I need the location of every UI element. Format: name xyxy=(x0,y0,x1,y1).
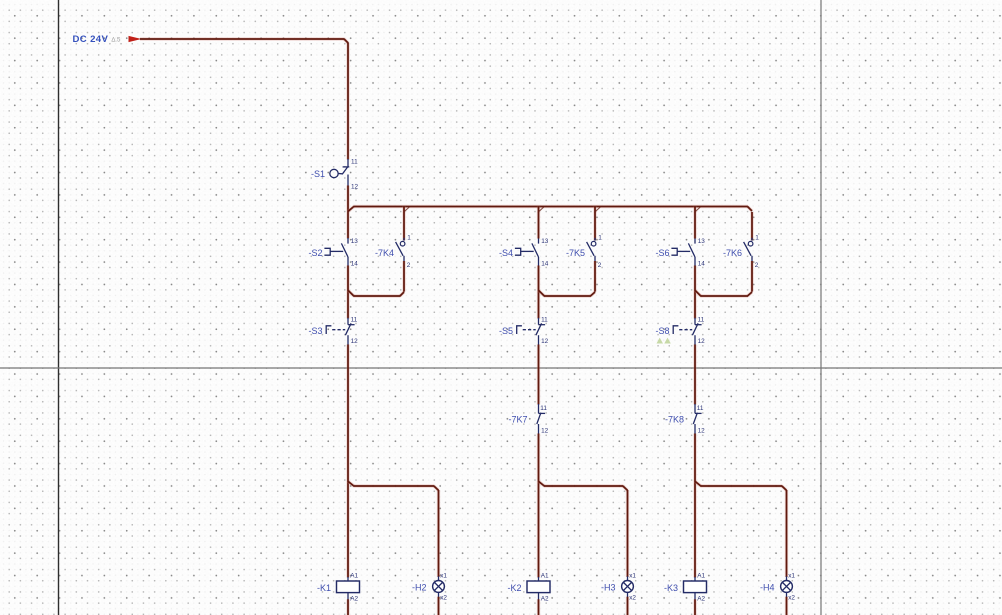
svg-text:12: 12 xyxy=(351,338,359,345)
svg-text:∆.5: ∆.5 xyxy=(112,36,122,43)
switch S3 (-S3, NC contact, pins 11/12) xyxy=(308,316,358,345)
svg-text:2: 2 xyxy=(407,262,411,269)
svg-text:-S4: -S4 xyxy=(499,248,513,258)
wire: rail to S6 vertical xyxy=(693,212,696,239)
indicator lamp H4 (-H4, pins x1/x2) xyxy=(760,572,795,601)
svg-text:11: 11 xyxy=(351,316,358,323)
wire: rejoin tap on rung 2 xyxy=(539,290,545,296)
svg-text:11: 11 xyxy=(351,159,358,166)
svg-text:11: 11 xyxy=(697,405,704,412)
switch S5 (-S5, NC contact, pins 11/12) xyxy=(499,316,549,345)
svg-text:x1: x1 xyxy=(629,572,636,579)
wire: tap from vertical at S1 rung xyxy=(348,207,354,212)
wire: rejoin tap on rung 3 xyxy=(695,290,701,296)
svg-text:-K1: -K1 xyxy=(317,583,331,593)
wire: rejoin horizontal 7K5 to rung 2 xyxy=(544,294,591,297)
svg-text:x1: x1 xyxy=(440,572,447,579)
pushbutton S1 (-S1, NC contact, pins 11/12) xyxy=(311,159,359,191)
wire: junction stub at x=404 xyxy=(402,206,405,212)
wire: lamp branch corner down xyxy=(434,486,439,490)
svg-text:A1: A1 xyxy=(541,572,549,579)
svg-text:13: 13 xyxy=(351,238,359,245)
wire: lamp branch corner down xyxy=(623,486,628,490)
annotation: green check marks near S8 xyxy=(657,338,664,344)
svg-text:14: 14 xyxy=(541,260,549,267)
wire: below coil -K3 to sheet edge xyxy=(693,599,696,615)
svg-text:-7K5: -7K5 xyxy=(566,248,585,258)
svg-text:x2: x2 xyxy=(440,595,447,602)
contactor contact 7K5 (-7K5, NO contact, pins 1/2) xyxy=(566,212,602,292)
wire: lamp branch horizontal xyxy=(544,484,624,487)
wire: rung 1 vertical S3 to lamp branch xyxy=(346,345,349,578)
svg-text:x2: x2 xyxy=(629,595,636,602)
svg-text:14: 14 xyxy=(698,260,706,267)
pushbutton S6 (-S6, NO contact, pins 13/14) xyxy=(655,238,705,267)
wire: S2 to S3 vertical (crosses rejoin node) xyxy=(346,266,349,319)
wire: lamp branch vertical xyxy=(626,490,629,577)
svg-text:-S5: -S5 xyxy=(499,326,513,336)
svg-text:1: 1 xyxy=(755,235,759,242)
svg-text:x1: x1 xyxy=(788,572,795,579)
wire: rejoin horizontal 7K6 to rung 3 xyxy=(700,294,748,297)
svg-text:-H4: -H4 xyxy=(760,583,775,593)
wire: lamp branch tap xyxy=(695,481,701,486)
svg-text:14: 14 xyxy=(351,260,359,267)
svg-text:-S2: -S2 xyxy=(308,248,322,258)
svg-text:11: 11 xyxy=(541,316,548,323)
relay coil K2 (-K2, pins A1/A2) xyxy=(507,572,550,602)
wire: rejoin corner from 7K5 xyxy=(591,292,596,296)
wire: 7K8 to lamp branch rung 3 xyxy=(693,434,696,578)
contactor contact 7K4 (-7K4, NO contact, pins 1/2) xyxy=(375,212,411,292)
svg-text:-7K7: -7K7 xyxy=(508,415,527,425)
svg-text:11: 11 xyxy=(698,316,705,323)
wire: top distribution rail xyxy=(353,205,748,208)
wire: lamp branch corner down xyxy=(782,486,787,490)
svg-text:A1: A1 xyxy=(697,572,705,579)
wire corner chamfer xyxy=(344,39,348,43)
contactor contact 7K8 (-7K8, NC contact, pins 11/12) xyxy=(665,404,705,435)
indicator lamp H2 (-H2, pins x1/x2) xyxy=(412,572,447,601)
svg-text:1: 1 xyxy=(598,235,602,242)
svg-text:13: 13 xyxy=(541,238,549,245)
wire: rung 3 vertical S8 to 7K8 xyxy=(693,345,696,405)
wire: rung 2 vertical S5 to 7K7 xyxy=(537,345,540,405)
wire: lamp branch tap xyxy=(348,481,354,486)
svg-text:A2: A2 xyxy=(541,595,549,602)
relay coil K3 (-K3, pins A1/A2) xyxy=(664,572,707,602)
wire: rejoin horizontal 7K4 to rung 1 xyxy=(353,294,400,297)
wire: junction stub at x=695 xyxy=(693,206,696,212)
wire: below lamp -H2 to sheet edge xyxy=(437,597,440,615)
wire: vertical drop to S1 pin 11 xyxy=(346,43,349,160)
svg-text:1: 1 xyxy=(407,235,411,242)
svg-text:DC 24V: DC 24V xyxy=(73,34,109,45)
svg-text:-7K4: -7K4 xyxy=(375,248,394,258)
wire: below lamp -H3 to sheet edge xyxy=(626,597,629,615)
svg-text:A2: A2 xyxy=(697,595,705,602)
switch S8 (-S8, NC contact, pins 11/12) xyxy=(655,316,705,345)
svg-text:-S3: -S3 xyxy=(308,326,322,336)
svg-text:-K2: -K2 xyxy=(507,583,521,593)
svg-text:-H3: -H3 xyxy=(601,583,616,593)
svg-text:2: 2 xyxy=(755,262,759,269)
svg-text:12: 12 xyxy=(351,183,359,190)
svg-text:13: 13 xyxy=(698,238,706,245)
pushbutton S4 (-S4, NO contact, pins 13/14) xyxy=(499,238,549,267)
svg-text:-7K6: -7K6 xyxy=(723,248,742,258)
wire: end corner into 7K6 drop xyxy=(748,207,753,212)
wire: below coil -K2 to sheet edge xyxy=(537,599,540,615)
wire: rejoin corner from 7K6 xyxy=(748,292,753,296)
wire: lamp branch vertical xyxy=(437,490,440,577)
svg-text:-H2: -H2 xyxy=(412,583,427,593)
wire: DC24V horizontal run to first rung xyxy=(140,37,345,40)
wire: rejoin corner from 7K4 xyxy=(400,292,404,296)
wire: 7K7 to lamp branch rung 2 xyxy=(537,434,540,578)
wire: rejoin tap on main rung 1 xyxy=(348,290,354,296)
svg-text:-7K8: -7K8 xyxy=(665,415,684,425)
svg-text:2: 2 xyxy=(598,262,602,269)
interruption point arrow (DC 24V source) xyxy=(129,36,142,42)
pushbutton S2 (-S2, NO contact, pins 13/14) xyxy=(308,238,358,267)
svg-text:12: 12 xyxy=(698,428,706,435)
wire: S4 to S5 vertical xyxy=(537,266,540,319)
wire: junction stub at x=538.5 xyxy=(537,206,540,212)
wire: junction stub at x=595 xyxy=(593,206,596,212)
wire: lamp branch vertical xyxy=(785,490,788,577)
svg-text:A1: A1 xyxy=(350,572,358,579)
wire: S6 to S8 vertical xyxy=(693,266,696,319)
svg-text:-S8: -S8 xyxy=(655,326,669,336)
wire: S1 to rung branch and down to S2 xyxy=(346,186,349,239)
svg-text:12: 12 xyxy=(541,428,549,435)
wire: lamp branch horizontal xyxy=(700,484,782,487)
svg-text:A2: A2 xyxy=(350,595,358,602)
wire: lamp branch tap xyxy=(539,481,545,486)
wire: rail to S4 vertical xyxy=(537,212,540,239)
svg-text:12: 12 xyxy=(541,338,549,345)
svg-text:x2: x2 xyxy=(788,595,795,602)
indicator lamp H3 (-H3, pins x1/x2) xyxy=(601,572,636,601)
svg-text:11: 11 xyxy=(540,405,547,412)
svg-text:-S1: -S1 xyxy=(311,169,325,179)
wire: lamp branch horizontal xyxy=(353,484,434,487)
wire: below lamp -H4 to sheet edge xyxy=(785,597,788,615)
svg-text:-S6: -S6 xyxy=(655,248,669,258)
svg-text:12: 12 xyxy=(698,338,706,345)
relay coil K1 (-K1, pins A1/A2) xyxy=(317,572,360,602)
contactor contact 7K6 (-7K6, NO contact, pins 1/2) xyxy=(723,212,759,292)
wire: below coil -K1 to sheet edge xyxy=(346,599,349,615)
contactor contact 7K7 (-7K7, NC contact, pins 11/12) xyxy=(508,404,548,435)
svg-text:-K3: -K3 xyxy=(664,583,678,593)
